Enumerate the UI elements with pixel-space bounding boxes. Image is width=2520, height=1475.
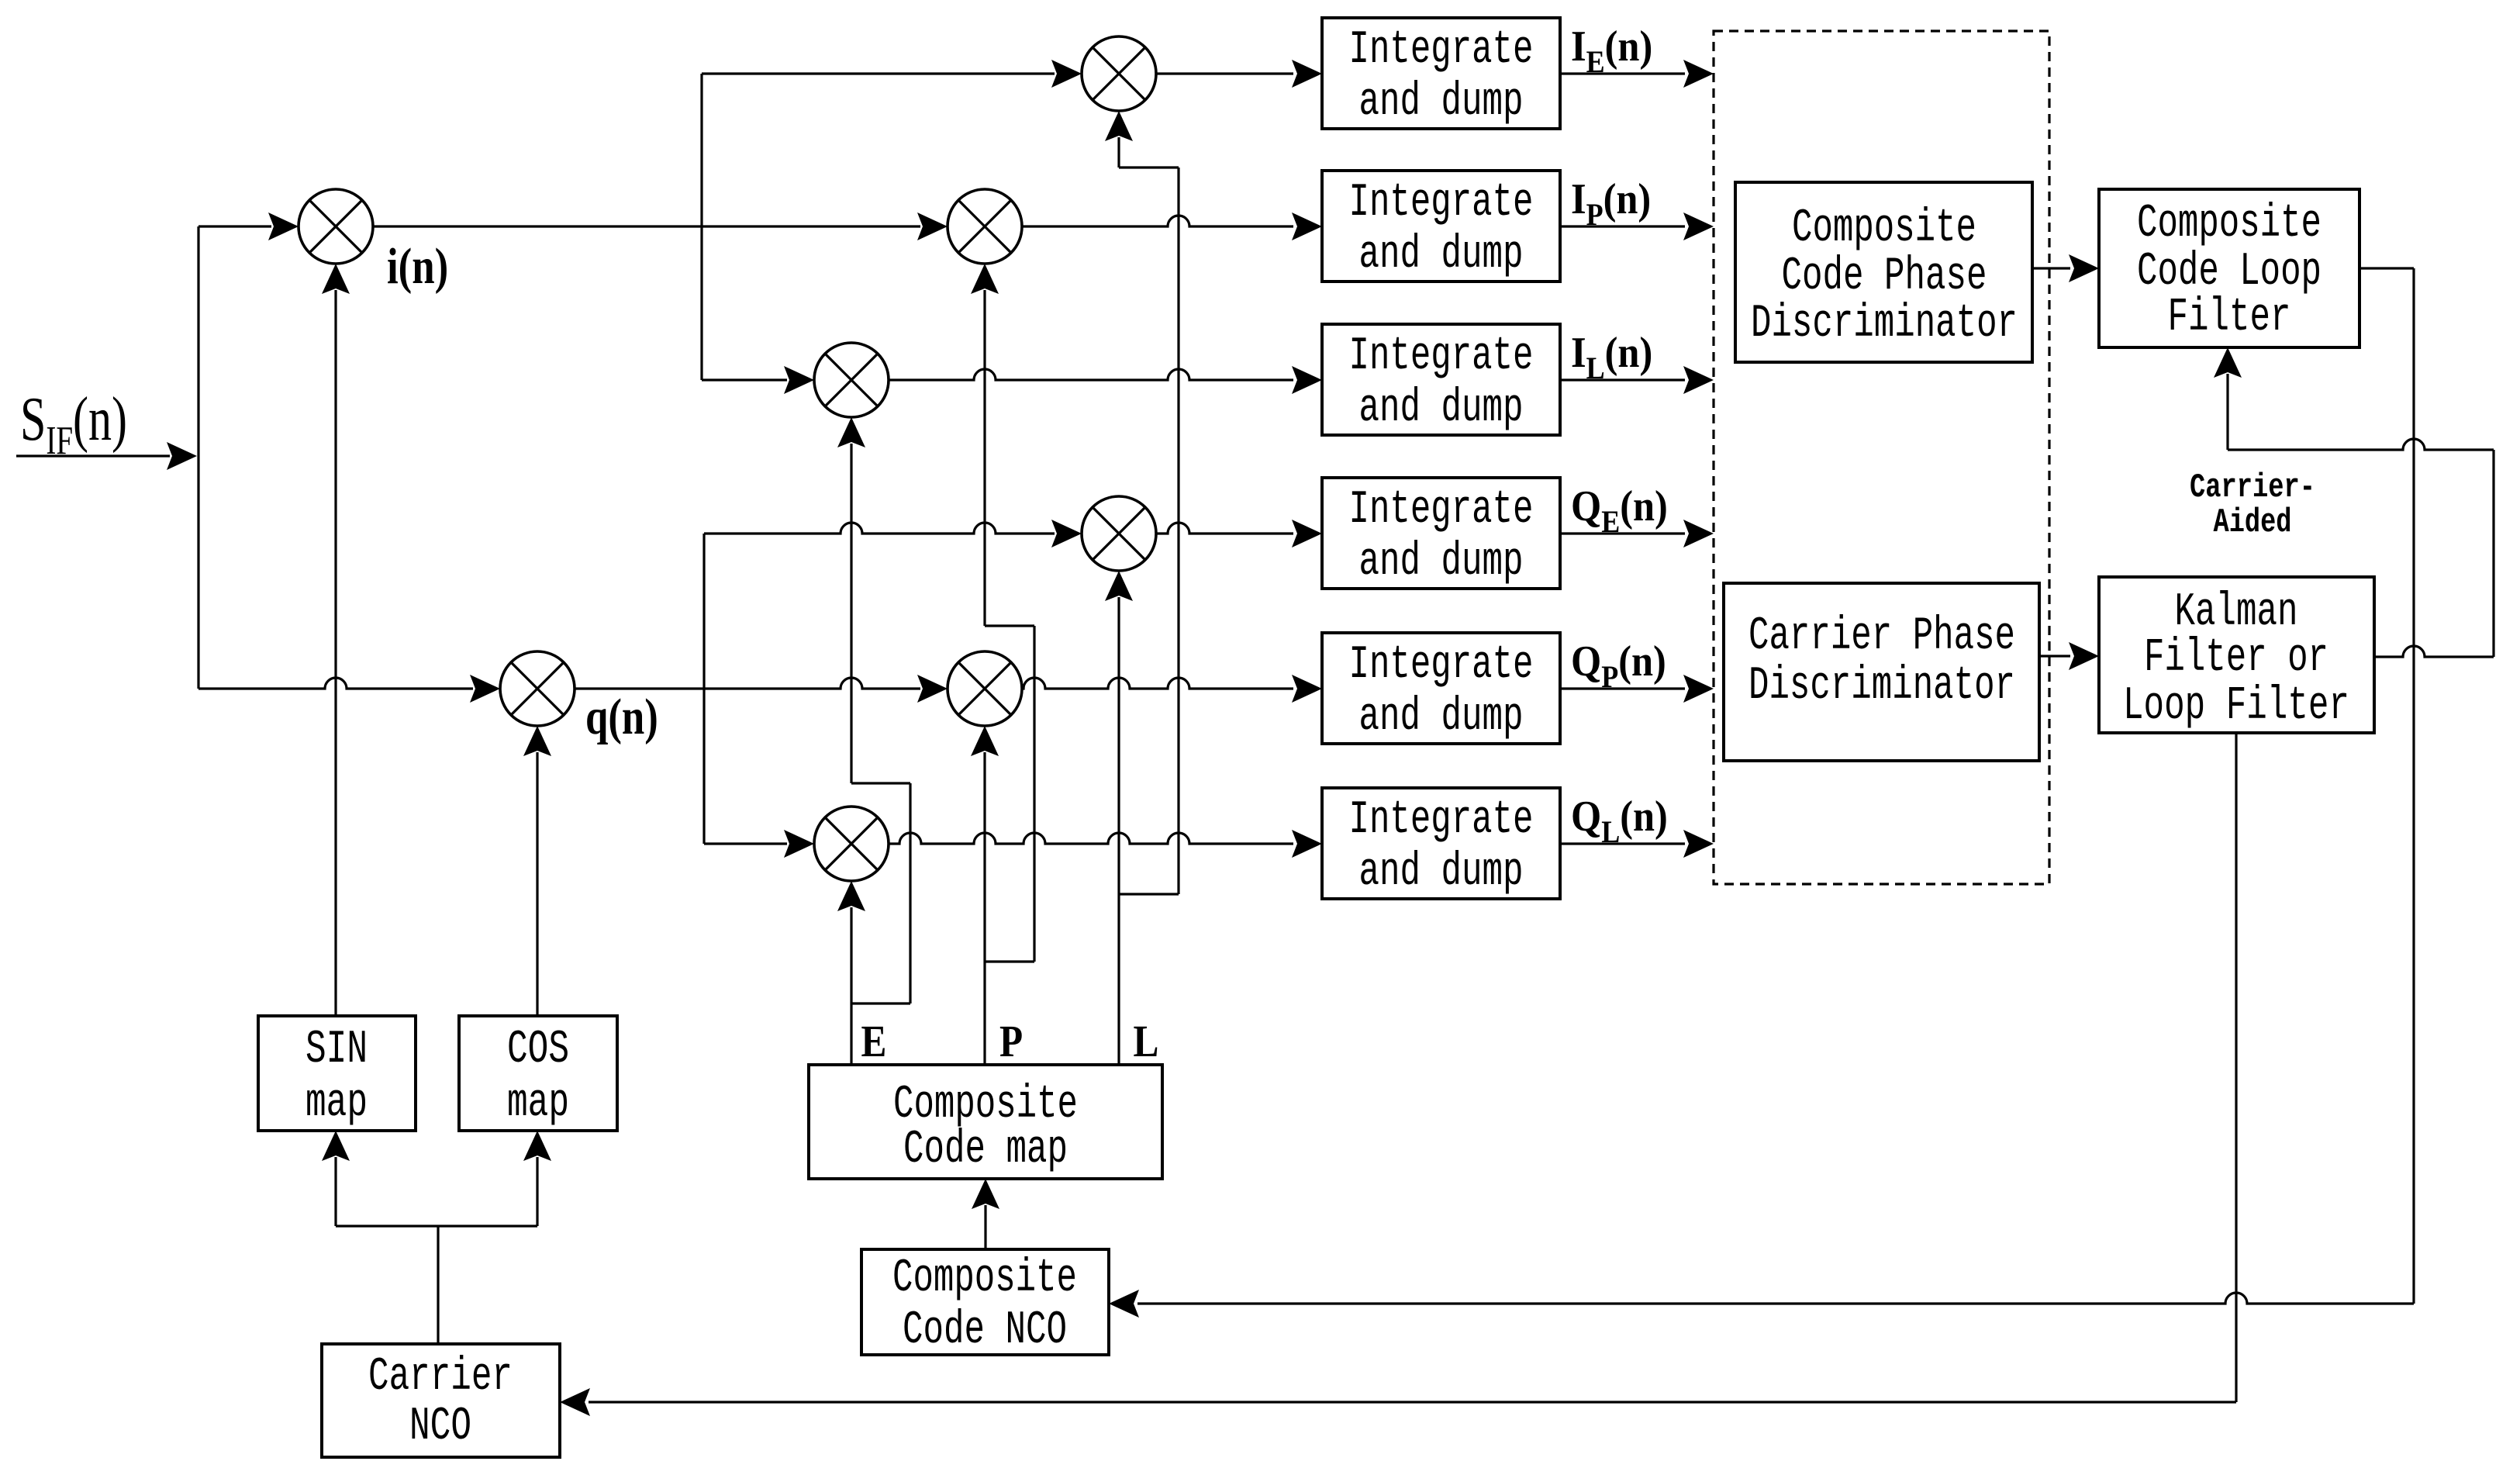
svg-text:L: L: [1134, 1016, 1159, 1066]
svg-text:P: P: [999, 1016, 1023, 1066]
svg-text:Loop Filter: Loop Filter: [2123, 680, 2349, 733]
svg-text:COS: COS: [507, 1024, 569, 1076]
svg-text:NCO: NCO: [409, 1401, 471, 1453]
svg-text:Discriminator: Discriminator: [1751, 298, 2018, 351]
svg-text:Composite: Composite: [1792, 202, 1976, 255]
svg-text:i(n): i(n): [387, 237, 448, 294]
svg-text:Integrate: Integrate: [1349, 330, 1534, 383]
svg-text:Carrier-: Carrier-: [2190, 468, 2315, 507]
svg-text:Aided: Aided: [2214, 503, 2292, 542]
svg-text:Code map: Code map: [903, 1124, 1068, 1176]
svg-text:Filter: Filter: [2168, 292, 2291, 344]
svg-text:Integrate: Integrate: [1349, 177, 1534, 230]
svg-text:Integrate: Integrate: [1349, 484, 1534, 537]
svg-text:Code Phase: Code Phase: [1782, 250, 1987, 303]
svg-text:and dump: and dump: [1359, 536, 1524, 589]
svg-text:SIN: SIN: [306, 1024, 368, 1076]
svg-text:Integrate: Integrate: [1349, 794, 1534, 847]
svg-text:and dump: and dump: [1359, 691, 1524, 744]
svg-text:Code NCO: Code NCO: [903, 1304, 1067, 1357]
svg-text:Integrate: Integrate: [1349, 24, 1534, 77]
svg-text:and dump: and dump: [1359, 846, 1524, 899]
svg-text:Integrate: Integrate: [1349, 639, 1534, 692]
svg-text:Discriminator: Discriminator: [1748, 660, 2015, 713]
svg-text:map: map: [306, 1077, 368, 1130]
svg-text:Kalman: Kalman: [2175, 586, 2298, 639]
svg-text:and dump: and dump: [1359, 229, 1524, 282]
svg-text:and dump: and dump: [1359, 76, 1524, 129]
svg-text:map: map: [507, 1077, 569, 1130]
svg-text:Code Loop: Code Loop: [2137, 246, 2322, 299]
svg-text:q(n): q(n): [585, 688, 658, 744]
svg-text:Composite: Composite: [892, 1252, 1077, 1305]
svg-text:Filter or: Filter or: [2144, 632, 2328, 685]
svg-text:Composite: Composite: [2137, 198, 2322, 250]
svg-text:E: E: [861, 1016, 887, 1066]
svg-text:and dump: and dump: [1359, 382, 1524, 435]
svg-text:Carrier Phase: Carrier Phase: [1748, 610, 2015, 663]
svg-text:SIF(n): SIF(n): [20, 385, 127, 462]
svg-text:Carrier: Carrier: [368, 1351, 513, 1404]
